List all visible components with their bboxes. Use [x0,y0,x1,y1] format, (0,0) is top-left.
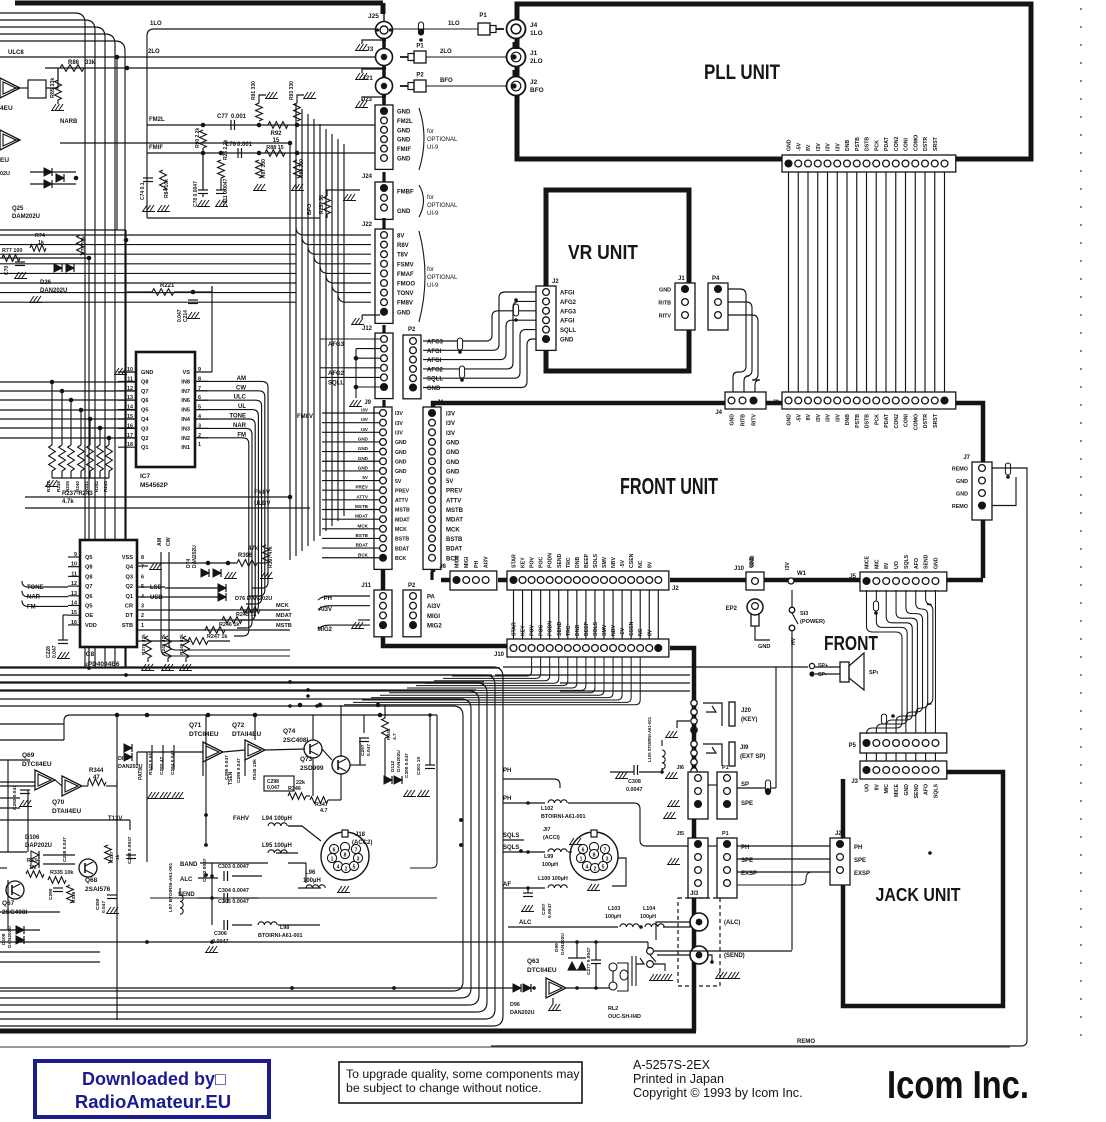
svg-text:GND: GND [933,557,939,569]
svg-text:PREV: PREV [355,485,368,490]
svg-text:R247 1k: R247 1k [207,634,227,640]
svg-text:P4: P4 [712,276,720,282]
svg-text:ULBV: ULBV [254,501,270,507]
svg-text:DTAII4EU: DTAII4EU [52,808,81,815]
svg-text:TRC: TRC [566,557,572,568]
svg-text:R245 1k: R245 1k [236,612,256,618]
svg-text:(ALC): (ALC) [724,920,740,926]
svg-text:be subject to change without n: be subject to change without notice. [346,1081,542,1095]
svg-text:FMIF: FMIF [397,147,411,153]
svg-text:FAHV: FAHV [233,816,249,822]
svg-text:3: 3 [606,857,609,863]
svg-text:C303 0.0047: C303 0.0047 [218,864,249,870]
svg-text:R93 330: R93 330 [289,81,295,100]
svg-text:J25: J25 [368,13,379,20]
svg-text:0.0047: 0.0047 [626,787,643,793]
svg-text:FM: FM [27,604,36,610]
svg-text:PH: PH [474,561,480,568]
svg-text:C295 0.047: C295 0.047 [224,755,230,780]
svg-text:Q4: Q4 [126,565,134,571]
svg-text:GND: GND [787,414,793,426]
svg-text:PH: PH [503,768,511,774]
svg-text:PA: PA [427,595,436,601]
svg-text:2SC408I: 2SC408I [283,737,308,744]
svg-text:AFG2: AFG2 [427,367,444,373]
svg-text:EU: EU [0,157,9,164]
svg-text:AM: AM [157,538,163,546]
svg-text:I3V: I3V [835,143,841,151]
svg-text:PREV: PREV [446,489,462,495]
svg-text:2: 2 [345,867,348,873]
svg-text:8: 8 [141,555,144,561]
svg-text:MCK: MCK [358,523,369,528]
svg-text:Q6: Q6 [141,398,148,404]
svg-text:22k: 22k [296,780,305,786]
svg-text:L99: L99 [544,854,553,860]
svg-text:MDAT: MDAT [276,613,292,619]
svg-text:FSMV: FSMV [397,262,414,268]
svg-text:J7: J7 [963,455,970,461]
svg-text:GND: GND [397,138,411,144]
svg-text:L95 100µH: L95 100µH [262,843,292,849]
svg-text:0.047: 0.047 [366,744,372,756]
svg-text:C289 0.0047: C289 0.0047 [127,836,133,864]
svg-text:C306: C306 [214,931,227,937]
svg-text:GND: GND [560,338,574,344]
svg-text:GND: GND [141,370,153,376]
svg-text:R87 330: R87 330 [261,159,267,178]
svg-text:AFO: AFO [914,558,920,569]
svg-text:5: 5 [602,865,605,871]
svg-text:KEY: KEY [521,557,527,568]
svg-text:16: 16 [71,620,77,626]
svg-text:MIC: MIC [884,784,890,794]
svg-text:IN5: IN5 [181,408,190,414]
svg-text:GND: GND [395,440,407,446]
svg-text:DTAII4EU: DTAII4EU [232,731,261,738]
svg-text:C297: C297 [360,744,366,756]
svg-text:SP-: SP- [818,672,827,678]
svg-text:VDD: VDD [85,623,97,629]
svg-text:C78 0.0047: C78 0.0047 [193,181,199,207]
svg-text:2SD999: 2SD999 [300,765,324,772]
svg-text:ALC: ALC [180,877,193,883]
svg-text:PDAT: PDAT [884,413,890,428]
svg-text:STAR: STAR [512,622,518,636]
svg-text:IN4: IN4 [181,417,191,423]
svg-text:C300 0.047: C300 0.047 [404,753,410,778]
svg-text:J9: J9 [364,400,371,406]
svg-text:J3: J3 [772,157,779,163]
svg-text:Q71: Q71 [189,722,202,729]
svg-text:POC: POC [539,557,545,568]
svg-text:Q7: Q7 [85,584,92,590]
svg-text:GND: GND [358,436,369,441]
svg-text:UI-9: UI-9 [427,145,439,151]
svg-text:GND: GND [956,479,968,485]
svg-text:D76 DAN202U: D76 DAN202U [235,596,272,602]
svg-text:9: 9 [74,552,77,558]
svg-text:2LO: 2LO [530,58,543,65]
svg-text:SRST: SRST [933,413,939,428]
svg-text:AFG2: AFG2 [560,300,577,306]
svg-text:I3V: I3V [361,427,369,432]
svg-text:J6: J6 [439,564,446,570]
svg-text:I3V: I3V [361,417,369,422]
svg-text:STAR: STAR [512,554,518,568]
svg-text:C308: C308 [628,779,641,785]
svg-text:4.7: 4.7 [392,733,398,740]
svg-text:I3V: I3V [446,412,455,418]
svg-text:SMV: SMV [602,624,608,636]
svg-text:I3V: I3V [826,143,832,151]
svg-text:Q8: Q8 [141,379,148,385]
svg-text:MDAT: MDAT [395,517,410,523]
svg-text:Q2: Q2 [141,436,148,442]
svg-text:MICE: MICE [894,783,900,797]
svg-text:SRST: SRST [933,136,939,151]
svg-text:4.7k: 4.7k [62,499,74,505]
svg-text:DTCII4EU: DTCII4EU [189,731,219,738]
svg-text:P1: P1 [479,13,487,19]
svg-text:J4: J4 [715,410,722,416]
svg-text:1: 1 [141,623,144,629]
svg-text:SEND: SEND [924,554,930,569]
svg-text:SQLS: SQLS [933,783,939,798]
svg-text:GND: GND [427,386,441,392]
svg-text:SI3: SI3 [800,611,808,617]
svg-text:DNB: DNB [845,414,851,425]
svg-text:L103: L103 [608,906,620,912]
svg-text:Q5: Q5 [141,408,148,414]
svg-text:0.0047: 0.0047 [547,903,553,918]
svg-text:AI3V: AI3V [484,556,490,568]
svg-text:CONI: CONI [904,413,910,427]
svg-text:PLL UNIT: PLL UNIT [704,61,780,84]
svg-text:DSTB: DSTB [865,137,871,151]
svg-text:R86: R86 [68,60,80,66]
svg-text:R84 10k: R84 10k [164,179,170,198]
svg-text:R91 330: R91 330 [251,81,257,100]
svg-text:Q8: Q8 [85,574,92,580]
svg-text:R246 1k: R246 1k [219,622,239,628]
svg-text:GND: GND [358,465,369,470]
svg-text:SQLL: SQLL [328,381,344,387]
svg-text:R78 10k: R78 10k [81,236,87,255]
svg-text:MCK: MCK [446,527,460,533]
svg-text:6: 6 [141,574,144,580]
svg-text:15: 15 [273,138,280,144]
svg-text:RL2: RL2 [608,1006,618,1012]
svg-text:IC7: IC7 [140,473,151,480]
svg-text:PREV: PREV [395,488,410,494]
svg-text:IN7: IN7 [181,389,190,395]
svg-text:1k: 1k [115,854,121,860]
svg-text:FRONT UNIT: FRONT UNIT [620,473,718,499]
svg-text:MSTB: MSTB [395,508,410,514]
svg-text:SPE: SPE [854,858,866,864]
svg-text:1LO: 1LO [448,21,460,27]
svg-text:FMAF: FMAF [397,272,414,278]
svg-text:2: 2 [594,867,597,873]
svg-text:15: 15 [71,610,77,616]
svg-text:CONI: CONI [904,137,910,151]
svg-text:13: 13 [71,591,77,597]
svg-text:IN8: IN8 [181,379,190,385]
svg-text:SQLS: SQLS [503,833,519,839]
svg-text:FM8V: FM8V [297,414,313,420]
svg-text:AFGI: AFGI [560,291,575,297]
svg-text:J12: J12 [362,326,373,332]
svg-text:JI7: JI7 [543,827,551,833]
svg-text:0.047: 0.047 [177,309,183,322]
svg-text:J23: J23 [362,97,373,103]
svg-text:GND: GND [395,469,407,475]
svg-text:3: 3 [141,604,144,610]
svg-text:GND: GND [787,139,793,151]
svg-text:MIGI: MIGI [464,556,470,568]
svg-text:SEND: SEND [557,553,563,568]
svg-text:SOLS: SOLS [593,621,599,636]
svg-text:J22: J22 [362,222,373,228]
svg-text:8V: 8V [397,234,404,240]
svg-text:SQLL: SQLL [427,377,443,383]
svg-text:NBV: NBV [611,625,617,636]
svg-text:J3: J3 [772,400,779,406]
svg-text:COMO: COMO [913,414,919,430]
svg-text:CSEN: CSEN [629,553,635,568]
svg-text:VR UNIT: VR UNIT [568,242,638,264]
svg-text:EP2: EP2 [726,606,738,612]
svg-text:C294 0.047: C294 0.047 [170,750,176,775]
svg-text:PH: PH [854,845,862,851]
svg-text:L94 100µH: L94 100µH [262,816,292,822]
svg-text:R348: R348 [386,728,392,740]
svg-text:C301 10: C301 10 [416,757,422,775]
svg-text:VSS: VSS [122,555,133,561]
svg-text:SPı: SPı [869,670,878,676]
svg-text:POV: POV [530,557,536,568]
svg-text:DNB: DNB [575,625,581,636]
svg-text:FMBF: FMBF [397,190,414,196]
svg-text:Q68: Q68 [85,877,98,884]
svg-text:DT: DT [126,613,134,619]
svg-text:GND: GND [397,209,411,215]
svg-text:AFG3: AFG3 [560,309,577,315]
svg-text:BSTB: BSTB [355,533,368,538]
svg-text:Q74: Q74 [283,728,296,735]
svg-text:MDAT: MDAT [355,514,368,519]
svg-text:6: 6 [582,848,585,854]
svg-text:REMO: REMO [797,1039,815,1045]
svg-text:REMO: REMO [952,467,968,473]
svg-text:02U: 02U [0,171,10,177]
svg-text:(POWER): (POWER) [800,619,825,625]
svg-text:P1: P1 [416,44,424,50]
svg-text:R379 47k: R379 47k [141,634,147,655]
svg-text:R8V: R8V [397,243,409,249]
svg-text:SQLS: SQLS [503,845,519,851]
svg-text:1: 1 [580,857,583,863]
svg-text:GND: GND [358,456,369,461]
svg-text:47: 47 [93,775,100,781]
svg-text:C277 0.0047: C277 0.0047 [586,947,592,975]
svg-text:Q8: Q8 [85,565,92,571]
svg-text:J2: J2 [672,586,679,592]
svg-text:ULC8: ULC8 [8,50,24,56]
svg-text:GND: GND [397,110,411,116]
svg-text:J10: J10 [734,566,745,572]
svg-text:DNB: DNB [575,557,581,568]
svg-text:MIGI: MIGI [427,614,440,620]
svg-text:BSTB: BSTB [446,537,463,543]
svg-text:AFGI: AFGI [427,349,442,355]
svg-text:J1: J1 [678,276,685,282]
svg-text:2LO: 2LO [148,49,160,55]
svg-text:R92: R92 [270,131,282,137]
svg-text:AFG2: AFG2 [328,371,345,377]
svg-text:R243: R243 [103,481,108,492]
svg-text:P2: P2 [408,327,416,333]
svg-text:MDAT: MDAT [446,518,463,524]
svg-text:6: 6 [333,848,336,854]
svg-text:3: 3 [357,857,360,863]
svg-text:-5V: -5V [620,559,626,568]
svg-text:MIC: MIC [874,559,880,569]
svg-text:TONV: TONV [397,291,414,297]
svg-text:AFO: AFO [924,784,930,795]
svg-text:1: 1 [331,857,334,863]
svg-text:PSTB: PSTB [855,414,861,428]
svg-text:GND: GND [730,414,736,426]
svg-text:0.047: 0.047 [52,645,58,658]
svg-text:SP: SP [741,782,749,788]
svg-text:14: 14 [71,601,77,607]
svg-text:DNB: DNB [845,140,851,151]
svg-text:Q4: Q4 [141,417,149,423]
svg-text:I3V: I3V [826,413,832,421]
svg-text:8: 8 [593,853,596,859]
svg-text:DAN202U: DAN202U [560,933,566,955]
svg-text:BEEP: BEEP [584,621,590,636]
svg-text:PCK: PCK [874,140,880,151]
svg-text:ATTV: ATTV [356,494,369,499]
svg-text:Q7: Q7 [141,389,148,395]
svg-text:SEND: SEND [557,621,563,636]
svg-text:D112: D112 [390,760,396,772]
svg-text:CON2: CON2 [894,136,900,151]
svg-text:FM2L: FM2L [397,119,413,125]
svg-text:R344: R344 [89,768,104,774]
svg-text:GND: GND [904,784,910,796]
svg-text:PCK: PCK [874,414,880,425]
svg-text:GND: GND [397,157,411,163]
svg-text:I3V: I3V [446,421,455,427]
svg-text:MSTB: MSTB [355,504,369,509]
svg-text:C350: C350 [95,898,101,910]
svg-text:SQLL: SQLL [560,328,576,334]
svg-text:DAN202U: DAN202U [192,545,198,568]
svg-text:FM8V: FM8V [254,490,270,496]
svg-text:J2: J2 [835,831,842,837]
svg-text:Q3: Q3 [141,426,148,432]
svg-text:NC: NC [638,560,644,568]
svg-text:FM8V: FM8V [397,301,413,307]
svg-text:R77 100: R77 100 [2,248,22,254]
svg-text:UO: UO [894,561,900,569]
svg-text:DAP202U: DAP202U [25,843,52,849]
svg-text:IN3: IN3 [181,426,190,432]
svg-text:R346: R346 [288,786,301,792]
svg-text:-5V: -5V [796,142,802,151]
svg-text:I3V: I3V [835,413,841,421]
svg-text:DAM202U: DAM202U [12,214,40,220]
svg-text:J18: J18 [355,832,366,838]
svg-text:R396: R396 [238,553,253,559]
svg-text:P1: P1 [722,831,729,837]
svg-text:GND: GND [395,459,407,465]
svg-text:Q1: Q1 [141,445,148,451]
svg-text:SPE: SPE [741,801,753,807]
svg-text:1M: 1M [29,865,37,871]
svg-text:DTCII4EU: DTCII4EU [22,761,52,768]
svg-text:8V: 8V [647,629,653,636]
svg-text:UI-9: UI-9 [427,283,439,289]
svg-text:DSTR: DSTR [923,414,929,428]
svg-text:0.001: 0.001 [231,114,247,120]
svg-text:0.001: 0.001 [237,142,253,148]
svg-text:CSEN: CSEN [629,621,635,636]
svg-text:I3V: I3V [446,431,455,437]
svg-text:for: for [427,129,434,135]
svg-text:L98: L98 [280,925,289,931]
svg-text:(SEND): (SEND) [724,953,745,959]
svg-text:IN1: IN1 [181,445,190,451]
svg-text:5V: 5V [395,479,402,485]
svg-text:I3V: I3V [816,143,822,151]
svg-text:JI6: JI6 [677,765,685,771]
svg-text:R345 18k: R345 18k [252,759,258,780]
svg-text:J24: J24 [362,174,373,180]
svg-text:GND: GND [446,469,460,475]
svg-text:GND: GND [358,446,369,451]
svg-text:Downloaded by□: Downloaded by□ [82,1069,226,1089]
svg-text:NC: NC [638,628,644,636]
svg-text:W1: W1 [797,571,807,577]
svg-text:JACK UNIT: JACK UNIT [876,884,962,905]
svg-text:MICE: MICE [865,555,871,569]
svg-text:100µH: 100µH [605,914,621,920]
svg-text:GND: GND [659,288,671,294]
svg-text:CW: CW [166,537,172,546]
svg-text:BCK: BCK [358,552,369,557]
svg-text:REMO: REMO [952,504,968,510]
svg-text:7: 7 [604,848,607,854]
svg-text:C296 0.047: C296 0.047 [236,758,242,783]
svg-text:I3V: I3V [395,411,403,417]
svg-text:R242: R242 [94,481,99,492]
svg-text:OPTIONAL: OPTIONAL [427,203,458,209]
svg-text:C214: C214 [183,310,189,322]
svg-text:A-5257S-2EX: A-5257S-2EX [633,1058,711,1072]
svg-text:OPTIONAL: OPTIONAL [427,275,458,281]
svg-text:J5: J5 [849,574,856,580]
svg-text:DTCII4EU: DTCII4EU [527,967,557,974]
svg-text:RadioAmateur.EU: RadioAmateur.EU [75,1091,231,1112]
svg-text:POV: POV [530,625,536,636]
svg-text:MSTB: MSTB [446,508,464,514]
svg-text:J3: J3 [366,46,374,53]
